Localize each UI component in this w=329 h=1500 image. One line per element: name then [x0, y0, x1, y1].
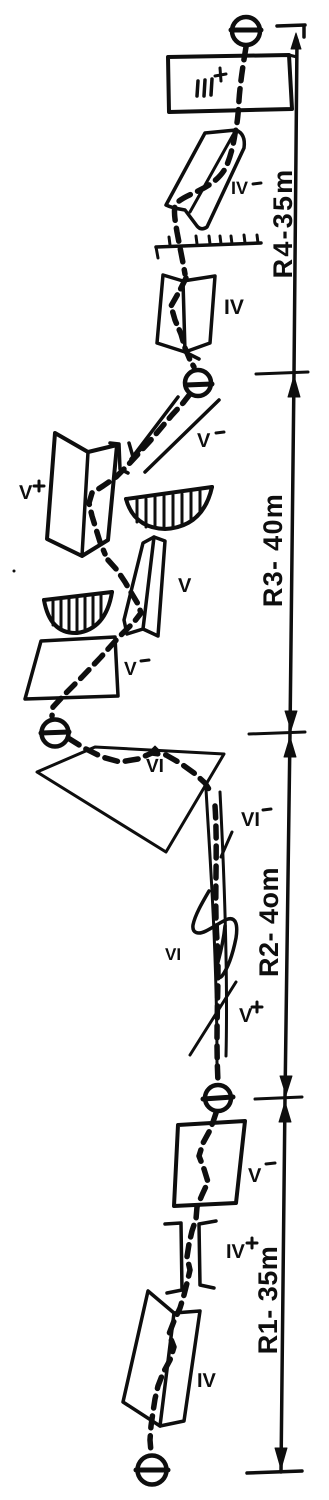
dimension arrow down above R3/R2 — [285, 711, 297, 730]
station S2 — [185, 370, 212, 396]
svg-text:V: V — [124, 659, 137, 680]
svg-text:IV: IV — [226, 1241, 246, 1263]
svg-text:V: V — [19, 482, 33, 504]
route dash S2 to V+ slab — [89, 394, 190, 554]
svg-text:V: V — [248, 1165, 262, 1187]
slab IV- outline — [166, 130, 244, 229]
svg-text:IV: IV — [224, 296, 244, 319]
dimension bottom arrow down — [275, 1448, 287, 1469]
svg-text:VI: VI — [241, 809, 260, 831]
dimension bottom tick — [247, 1471, 302, 1473]
dimension line main — [281, 40, 297, 1472]
route dash S1 to comb — [174, 47, 246, 274]
chute R2 left line — [206, 789, 217, 1066]
dimension tick R3/R2 — [249, 732, 305, 734]
plane VI outline — [37, 747, 224, 852]
svg-text:IV: IV — [197, 1370, 217, 1392]
slab V fold — [143, 537, 154, 629]
diagonal below ribbon — [190, 982, 236, 1055]
dimension tick R4/R3 — [256, 372, 308, 374]
route dash comb to S2 — [171, 278, 194, 367]
comb ticks — [156, 235, 258, 258]
comb ledge line — [156, 243, 261, 247]
rect V- outline — [174, 1121, 245, 1206]
dimension arrow up below R3/R2 — [284, 737, 296, 757]
station S1 — [231, 17, 261, 45]
station S4 — [203, 1085, 233, 1111]
svg-text:R1- 35m: R1- 35m — [253, 1246, 283, 1355]
dimension arrow up below R2/R1 — [279, 1102, 291, 1122]
station S5 — [136, 1456, 168, 1485]
chute R2 right line — [220, 792, 227, 1056]
slab IV- fold — [190, 135, 233, 212]
svg-text:R3- 40m: R3- 40m — [258, 493, 288, 607]
chute arrowhead — [110, 443, 141, 473]
bracket left — [165, 1223, 182, 1293]
dimension arrow down above R2/R1 — [280, 1076, 292, 1095]
hatched semicircle 1 — [126, 487, 212, 529]
box IV bottom tail — [185, 352, 199, 359]
slab V+ fold — [82, 452, 88, 556]
route dash V+ to trapezoid — [52, 560, 141, 716]
svg-text:IV: IV — [231, 178, 248, 198]
dimension arrow up at R4/R3 — [288, 376, 300, 397]
dimension tick R2/R1 — [255, 1097, 302, 1099]
svg-text:V: V — [178, 575, 192, 597]
paper speck — [13, 570, 16, 573]
bracket right — [199, 1221, 216, 1288]
svg-text:R4-35m: R4-35m — [268, 168, 298, 279]
slab V outline — [124, 537, 165, 636]
hatched semicircle 2 — [44, 592, 112, 633]
short diagonal stroke on chute — [221, 832, 232, 857]
label III+ — [197, 68, 226, 96]
station S3 — [41, 720, 69, 747]
route dash S4 to S5 — [150, 1113, 216, 1452]
svg-text:VI: VI — [165, 945, 181, 964]
slab IV bottom fold — [160, 1313, 174, 1426]
chute upper line — [131, 397, 178, 459]
route dash chute R2 — [215, 806, 218, 1082]
plane III+ outline — [168, 55, 292, 112]
svg-text:VI: VI — [146, 756, 164, 777]
chute lower line — [145, 400, 219, 472]
slab V+ outline — [47, 433, 117, 556]
route dash S3 across plane VI — [68, 738, 212, 794]
box IV outline — [157, 275, 215, 352]
dimension top tick — [277, 25, 305, 37]
trapezoid V- outline — [25, 637, 118, 699]
slab IV bottom outline — [123, 1291, 200, 1426]
box IV fold — [183, 281, 185, 352]
ribbon curve — [193, 891, 237, 977]
svg-text:R2- 4om: R2- 4om — [254, 867, 284, 977]
dimension top arrow up — [291, 33, 301, 49]
svg-text:V: V — [239, 1005, 253, 1027]
svg-text:V: V — [197, 430, 211, 452]
